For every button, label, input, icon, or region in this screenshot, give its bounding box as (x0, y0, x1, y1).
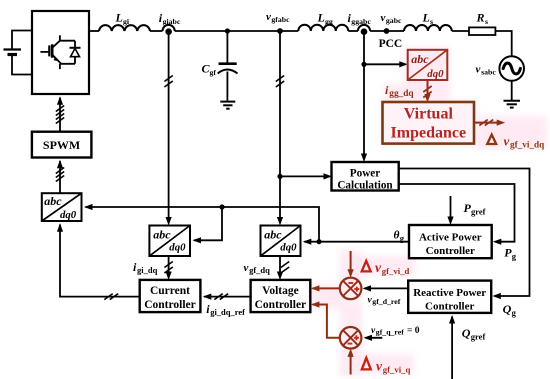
svg-text:gf_vi_dq: gf_vi_dq (510, 140, 545, 150)
svg-text:L: L (317, 11, 325, 25)
svg-text:SPWM: SPWM (43, 138, 80, 152)
svg-text:gref: gref (471, 331, 486, 341)
svg-text:g: g (512, 251, 517, 261)
svg-text:dq0: dq0 (280, 242, 297, 254)
svg-text:abc: abc (411, 52, 429, 66)
svg-text:Calculation: Calculation (337, 180, 393, 192)
svg-text:= 0: = 0 (407, 326, 420, 336)
svg-text:gf_dq: gf_dq (249, 265, 270, 275)
svg-text:g: g (400, 233, 405, 243)
svg-text:R: R (476, 11, 485, 25)
svg-text:dq0: dq0 (427, 68, 444, 80)
svg-text:g: g (512, 307, 517, 317)
svg-text:Power: Power (350, 167, 380, 179)
svg-text:gg_dq: gg_dq (389, 89, 414, 99)
svg-text:abc: abc (264, 227, 282, 241)
svg-text:v: v (266, 11, 271, 23)
svg-text:L: L (115, 11, 123, 25)
svg-text:Reactive Power: Reactive Power (413, 287, 486, 299)
svg-text:Controller: Controller (255, 299, 307, 311)
svg-text:PCC: PCC (379, 38, 403, 50)
svg-text:Q: Q (503, 302, 512, 316)
svg-text:dq0: dq0 (60, 209, 77, 221)
svg-text:gi: gi (123, 17, 130, 26)
svg-text:s: s (430, 17, 433, 26)
svg-text:Q: Q (462, 326, 471, 340)
svg-text:v: v (381, 12, 386, 24)
svg-text:v: v (244, 262, 249, 274)
svg-text:gi_dq_ref: gi_dq_ref (210, 307, 245, 317)
svg-text:v: v (476, 64, 481, 76)
svg-text:gg: gg (325, 17, 333, 26)
svg-text:θ: θ (394, 230, 400, 242)
svg-text:giabc: giabc (163, 17, 181, 26)
svg-text:gf: gf (210, 68, 217, 77)
svg-text:gabc: gabc (386, 16, 402, 25)
svg-text:gi_dq: gi_dq (137, 265, 158, 275)
svg-text:sabc: sabc (481, 68, 496, 77)
svg-text:Voltage: Voltage (262, 285, 299, 297)
svg-text:gf_vi_d: gf_vi_d (382, 266, 410, 276)
svg-text:abc: abc (44, 194, 62, 208)
svg-text:gf_vi_q: gf_vi_q (383, 365, 411, 375)
svg-text:Impedance: Impedance (391, 125, 467, 142)
svg-text:Current: Current (150, 285, 190, 297)
svg-text:ggabc: ggabc (351, 17, 371, 26)
svg-text:s: s (485, 17, 488, 26)
svg-text:abc: abc (153, 227, 171, 241)
svg-text:Controller: Controller (426, 245, 475, 257)
svg-text:dq0: dq0 (169, 242, 186, 254)
svg-text:L: L (422, 11, 430, 25)
svg-text:v: v (504, 134, 510, 149)
svg-text:gfabc: gfabc (271, 15, 290, 24)
svg-text:Controller: Controller (144, 299, 196, 311)
svg-text:Active Power: Active Power (419, 231, 482, 243)
svg-text:Virtual: Virtual (404, 106, 454, 123)
svg-text:gref: gref (471, 206, 486, 216)
svg-text:Controller: Controller (425, 301, 474, 313)
svg-text:gf_q_ref: gf_q_ref (376, 328, 404, 337)
svg-text:gf_d_ref: gf_d_ref (372, 297, 400, 306)
